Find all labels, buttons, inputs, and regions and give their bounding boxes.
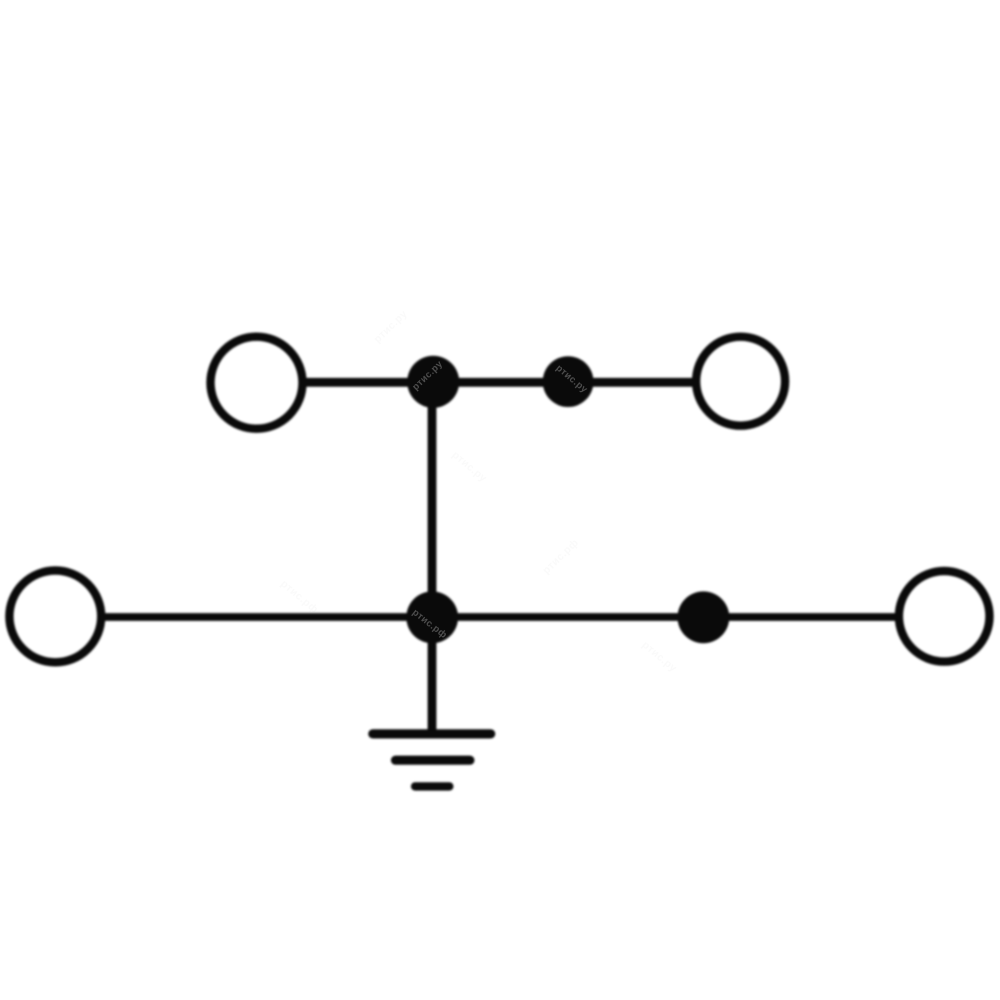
terminal circle top-left — [211, 337, 303, 429]
wire vertical (link between levels) — [428, 382, 437, 733]
junction dot top node B — [543, 356, 594, 407]
junction dot bottom node C — [406, 591, 458, 643]
ground — [373, 734, 491, 787]
wire top horizontal (upper level jumper) — [304, 378, 694, 387]
watermark fragments — [410, 358, 590, 641]
terminal circle top-right — [696, 337, 785, 426]
junction dot top node A — [407, 356, 459, 408]
terminal circle bottom-left — [9, 571, 101, 663]
wire bottom horizontal (lower level through-path) — [104, 613, 898, 621]
terminal circle bottom-right — [899, 571, 990, 662]
junction dot bottom node D — [678, 591, 730, 643]
